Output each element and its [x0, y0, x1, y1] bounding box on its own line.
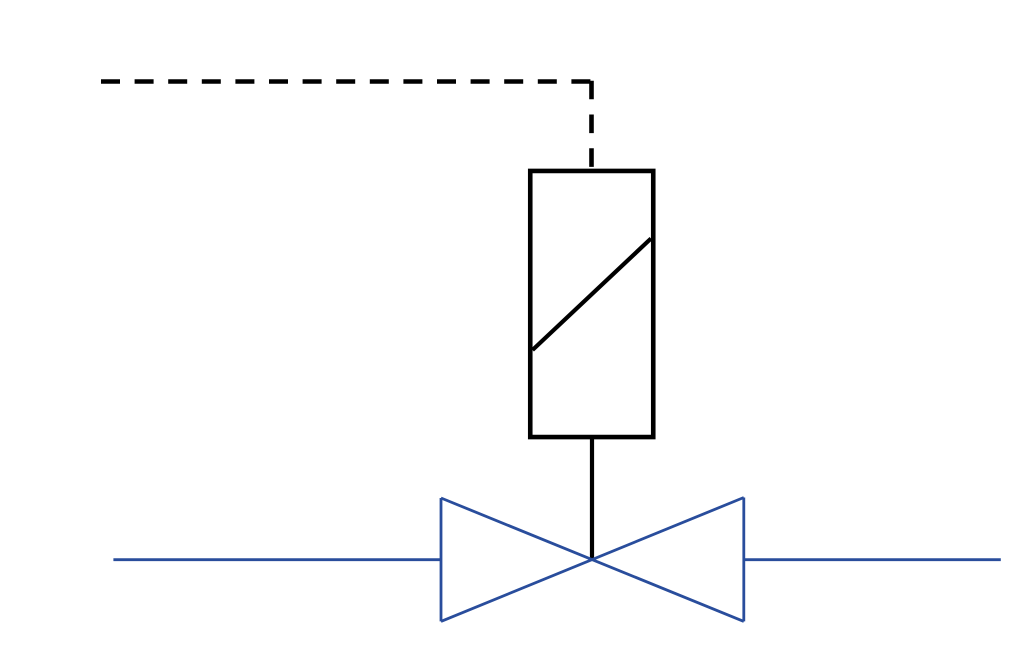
valve V1: left seat edge: [440, 498, 443, 621]
wire: dashed instrument signal line, vertical drop to actuator: [589, 81, 594, 169]
valve V1: crossing diagonal (top-left to bottom-right): [441, 498, 744, 621]
actuator diaphragm diagonal: [533, 239, 652, 351]
valve V1: right seat edge: [742, 498, 745, 622]
wire: right pipe line: [744, 558, 1001, 561]
wire: dashed instrument signal line, horizontal run: [101, 79, 592, 84]
valve V1: crossing diagonal (bottom-left to top-right): [441, 498, 744, 622]
wire: left pipe line: [113, 558, 441, 561]
actuator body (rectangle): [530, 171, 653, 437]
wire: valve stem: [590, 437, 594, 561]
